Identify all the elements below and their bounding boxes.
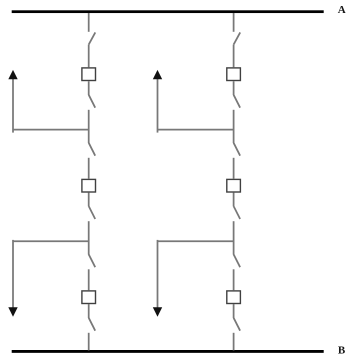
disconnect switch DS1e bbox=[89, 254, 96, 267]
disconnect switch DS1b bbox=[89, 95, 96, 108]
circuit breaker CB2b bbox=[227, 179, 241, 192]
circuit breaker CB1b bbox=[82, 179, 96, 192]
circuit breaker CB2a bbox=[227, 68, 241, 81]
wire dropper of feeder F1b bbox=[12, 240, 14, 308]
wire branch node J1b to feeder F1b bbox=[13, 240, 89, 242]
disconnect switch DS2b bbox=[234, 95, 241, 108]
feeder arrow F1b (outgoing down) bbox=[8, 307, 17, 317]
wire bus A to switch DS2a bbox=[233, 13, 235, 32]
svg-text:A: A bbox=[338, 4, 346, 16]
wire branch node J1a to feeder F1a bbox=[13, 129, 89, 131]
bus B (bottom busbar) bbox=[12, 350, 324, 353]
wire through node J1b bbox=[88, 221, 90, 254]
disconnect switch DS1f bbox=[89, 318, 96, 331]
wire DS1e to breaker CB1c bbox=[88, 269, 90, 290]
disconnect switch DS2e bbox=[234, 254, 241, 267]
circuit breaker CB2c bbox=[227, 291, 241, 304]
bus A (top busbar) bbox=[12, 10, 324, 13]
wire riser of feeder F1a bbox=[12, 79, 14, 133]
disconnect switch DS1c bbox=[89, 143, 96, 156]
svg-text:B: B bbox=[338, 344, 346, 356]
feeder arrow F2b (outgoing down) bbox=[153, 307, 162, 317]
disconnect switch DS1d bbox=[89, 206, 96, 219]
feeder arrow F1a (outgoing up) bbox=[8, 70, 17, 79]
wire DS1c to breaker CB1b bbox=[88, 158, 90, 179]
wire DS1f to bus B bbox=[88, 333, 90, 351]
feeder arrow F2a (outgoing up) bbox=[153, 70, 162, 79]
wire CB1c to switch DS1f bbox=[88, 304, 90, 318]
wire DS2f to bus B bbox=[233, 333, 235, 351]
wire CB2b to switch DS2d bbox=[233, 193, 235, 207]
wire DS2c to breaker CB2b bbox=[233, 158, 235, 179]
wire CB2a to switch DS2b bbox=[233, 81, 235, 95]
circuit breaker CB1c bbox=[82, 291, 96, 304]
wire riser of feeder F2a bbox=[157, 79, 159, 133]
wire dropper of feeder F2b bbox=[157, 240, 159, 308]
disconnect switch DS2f bbox=[234, 318, 241, 331]
wire through node J2b bbox=[233, 221, 235, 254]
disconnect switch DS2a bbox=[234, 32, 241, 44]
wire through node J1a bbox=[88, 110, 90, 143]
wire through node J2a bbox=[233, 110, 235, 143]
circuit breaker CB1a bbox=[82, 68, 96, 81]
wire DS1a to breaker CB1a bbox=[88, 45, 90, 68]
wire DS2e to breaker CB2c bbox=[233, 269, 235, 290]
wire CB1b to switch DS1d bbox=[88, 193, 90, 207]
disconnect switch DS2c bbox=[234, 143, 241, 156]
disconnect switch DS2d bbox=[234, 206, 241, 219]
wire bus A to switch DS1a bbox=[88, 13, 90, 32]
wire CB1a to switch DS1b bbox=[88, 81, 90, 95]
wire CB2c to switch DS2f bbox=[233, 304, 235, 318]
disconnect switch DS1a bbox=[89, 32, 96, 44]
wire branch node J2a to feeder F2a bbox=[158, 129, 234, 131]
wire DS2a to breaker CB2a bbox=[233, 45, 235, 68]
wire branch node J2b to feeder F2b bbox=[158, 240, 234, 242]
